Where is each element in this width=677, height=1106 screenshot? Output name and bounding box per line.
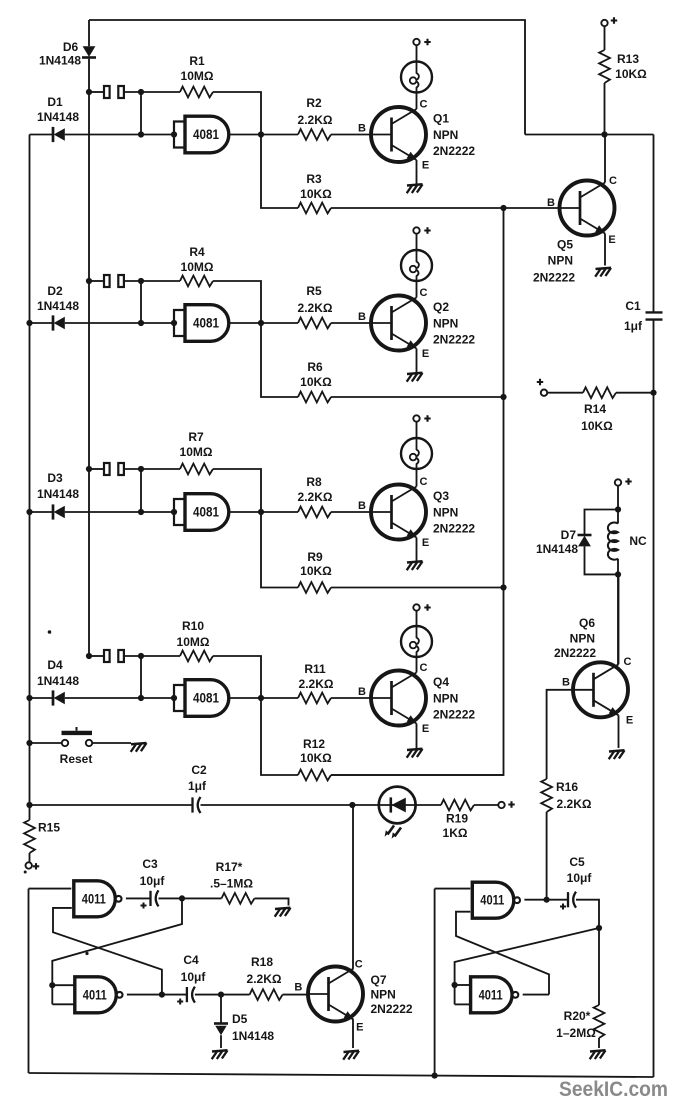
resistor R12 10K xyxy=(298,770,331,781)
resistor R2 2.2K xyxy=(298,129,331,140)
capacitor C3 xyxy=(151,890,159,906)
junction left bus / D4 xyxy=(26,695,32,701)
svg-text:R14: R14 xyxy=(584,402,606,416)
transistor Q1 xyxy=(371,107,426,162)
terminal lamp supply + xyxy=(413,39,419,45)
svg-text:E: E xyxy=(356,1022,363,1034)
resistor R4 10M xyxy=(180,276,213,287)
ground Q4 emitter xyxy=(407,749,423,758)
wire gate output to R11 xyxy=(230,697,299,699)
ground Q2 emitter xyxy=(407,373,423,382)
svg-text:C2: C2 xyxy=(191,763,207,777)
junction gate output xyxy=(258,320,264,326)
wire Q3 collector to lamp xyxy=(416,469,418,487)
terminal R19 supply + xyxy=(498,802,504,808)
svg-text:2.2KΩ: 2.2KΩ xyxy=(298,113,333,127)
wire lamp to supply terminal xyxy=(416,45,418,62)
svg-text:1N4148: 1N4148 xyxy=(37,299,79,313)
wire output node down to R12 xyxy=(261,698,298,775)
resistor R11 2.2K xyxy=(298,693,331,704)
wire gate output to R5 xyxy=(230,322,299,324)
wire lamp to supply terminal xyxy=(416,422,418,439)
svg-text:R1: R1 xyxy=(189,54,205,68)
svg-text:R2: R2 xyxy=(306,96,322,110)
transistor Q2 xyxy=(371,296,426,351)
svg-text:R12: R12 xyxy=(303,737,325,751)
wire bus to D1 xyxy=(30,134,54,136)
junction U6 input bar xyxy=(49,982,55,988)
wire output node down to R3 xyxy=(261,135,298,209)
svg-text:2.2KΩ: 2.2KΩ xyxy=(247,972,282,986)
svg-text:R4: R4 xyxy=(189,245,205,259)
wire right bus lower xyxy=(653,320,655,1077)
svg-text:Q4: Q4 xyxy=(433,675,449,689)
wire bus to pad xyxy=(89,468,104,470)
wire Q2 collector to lamp xyxy=(416,281,418,298)
svg-text:2.2KΩ: 2.2KΩ xyxy=(298,490,333,504)
wire R7 to gate output node xyxy=(213,469,261,512)
junction pad node xyxy=(138,466,144,472)
resistor R13 10K xyxy=(599,50,610,83)
svg-text:4081: 4081 xyxy=(193,505,219,520)
wire R5 to Q2 base xyxy=(331,322,371,324)
plus C5 polarity xyxy=(560,904,566,910)
svg-text:2N2222: 2N2222 xyxy=(533,271,575,285)
svg-text:4081: 4081 xyxy=(193,691,219,706)
terminal relay supply + xyxy=(615,479,621,485)
wire terminal to R14 xyxy=(547,392,583,394)
wire bus to pad xyxy=(89,91,104,93)
wire R20 to ground xyxy=(598,1038,600,1048)
wire gate output to R8 xyxy=(230,511,299,513)
svg-text:C: C xyxy=(420,476,428,488)
svg-text:B: B xyxy=(358,500,366,512)
svg-text:1μf: 1μf xyxy=(188,779,207,793)
svg-text:2.2KΩ: 2.2KΩ xyxy=(557,797,592,811)
resistor R5 2.2K xyxy=(298,318,331,329)
svg-text:10MΩ: 10MΩ xyxy=(181,260,214,274)
resistor R19 1K xyxy=(441,800,474,811)
svg-text:R9: R9 xyxy=(307,550,323,564)
wire bottom rail xyxy=(29,1073,654,1077)
junction input row xyxy=(138,509,144,515)
resistor R8 2.2K xyxy=(298,507,331,518)
svg-text:E: E xyxy=(422,537,429,549)
svg-text:10KΩ: 10KΩ xyxy=(300,564,332,578)
node stray mark 2 xyxy=(85,952,88,955)
svg-text:R3: R3 xyxy=(306,172,322,186)
svg-text:2N2222: 2N2222 xyxy=(433,333,475,347)
ground Q1 emitter xyxy=(407,184,423,193)
svg-text:Q2: Q2 xyxy=(433,300,449,314)
svg-text:2N2222: 2N2222 xyxy=(433,144,475,158)
svg-text:4011: 4011 xyxy=(479,987,503,1002)
diode D7 xyxy=(578,535,592,546)
wire cross-couple to U8 inputs xyxy=(455,928,599,1004)
capacitor C2 xyxy=(193,797,201,813)
svg-text:C3: C3 xyxy=(142,857,158,871)
diode D5 xyxy=(220,995,222,1023)
wire pad node down to gate input xyxy=(140,656,142,698)
wire R9 to middle bus xyxy=(331,587,504,589)
AND gate U3 4081 xyxy=(174,494,229,531)
svg-text:NPN: NPN xyxy=(433,317,458,331)
wire bus to switch xyxy=(30,742,62,744)
svg-text:1–2MΩ: 1–2MΩ xyxy=(556,1026,596,1040)
NAND gate U8 4011 xyxy=(471,977,519,1013)
resistor R1 10M xyxy=(180,87,213,98)
junction gate output xyxy=(258,131,264,137)
svg-text:B: B xyxy=(358,686,366,698)
terminal lamp supply + xyxy=(413,604,419,610)
junction pad node xyxy=(138,653,144,659)
svg-text:4081: 4081 xyxy=(193,316,219,331)
wire Q7 emitter xyxy=(352,1020,354,1049)
resistor R17 .5-1M xyxy=(222,893,255,904)
junction middle bus / R6 xyxy=(500,394,506,400)
plus C4 polarity xyxy=(177,999,183,1005)
transistor Q7 block xyxy=(294,805,412,1060)
ground reset xyxy=(131,743,147,752)
relay coil NC xyxy=(608,522,618,559)
junction relay bottom xyxy=(615,571,621,577)
ground Q6 emitter xyxy=(609,750,625,759)
wire to D7 xyxy=(585,510,619,536)
junction touch bus / pads 1 xyxy=(86,89,92,95)
resistor R10 10M xyxy=(180,651,213,662)
wire lamp to supply terminal xyxy=(416,611,418,627)
capacitor C5 xyxy=(568,892,576,908)
svg-text:B: B xyxy=(547,197,555,209)
svg-text:4011: 4011 xyxy=(480,893,504,908)
wire U6 output to C4 xyxy=(127,994,187,996)
wire Q3 emitter to ground xyxy=(416,538,418,563)
wire pad node down to gate input xyxy=(140,469,142,512)
svg-text:R18: R18 xyxy=(251,955,273,969)
resistor R3 10K xyxy=(298,203,331,214)
svg-text:NPN: NPN xyxy=(433,692,458,706)
wire U5 output to C3 xyxy=(126,897,151,899)
resistor R14 block xyxy=(537,379,657,433)
svg-text:B: B xyxy=(562,677,570,689)
svg-text:B: B xyxy=(358,123,366,135)
transistor Q5 xyxy=(560,181,615,236)
svg-text:10μf: 10μf xyxy=(140,874,166,888)
svg-text:D7: D7 xyxy=(561,528,577,542)
wire Q1 emitter to ground xyxy=(416,160,418,185)
wire Q6 emitter xyxy=(618,715,620,748)
svg-text:C: C xyxy=(624,656,632,668)
LED indicator xyxy=(379,787,416,839)
svg-text:4081: 4081 xyxy=(193,127,219,142)
node touch input 2 xyxy=(86,245,261,323)
junction LED row / Q7 collector xyxy=(349,802,355,808)
junction input row xyxy=(138,131,144,137)
switch Reset pushbutton xyxy=(62,731,93,735)
junction pad node xyxy=(138,89,144,95)
plus supply mark xyxy=(33,863,39,869)
svg-text:10μf: 10μf xyxy=(181,970,207,984)
wire R19 to terminal xyxy=(474,804,498,806)
svg-text:1N4148: 1N4148 xyxy=(37,110,79,124)
wire bus to C2 xyxy=(30,804,193,806)
capacitor C1 xyxy=(646,312,663,319)
wire R1 to gate output node xyxy=(213,92,261,135)
junction gate bracket xyxy=(171,320,177,326)
wire right ff bus xyxy=(434,889,436,1076)
svg-text:2.2KΩ: 2.2KΩ xyxy=(298,301,333,315)
AND gate U4 4081 xyxy=(174,680,229,717)
wire middle bus xyxy=(331,208,504,775)
wire D4 to gate input xyxy=(65,697,174,699)
wire bus to pad xyxy=(89,280,104,282)
svg-text:B: B xyxy=(294,982,302,994)
wire rail to right bus xyxy=(525,134,654,136)
junction C4 / D5 / R18 xyxy=(218,992,224,998)
NAND gate U6 4011 xyxy=(75,977,123,1013)
wire to U8 input a xyxy=(455,984,469,986)
junction input row xyxy=(138,320,144,326)
junction middle bus / R3 row xyxy=(500,205,506,211)
svg-text:Q5: Q5 xyxy=(557,238,573,252)
wire R16 down to gate output xyxy=(546,812,548,900)
lamp I1 xyxy=(401,62,432,93)
node touch input 1 xyxy=(86,54,261,135)
junction left bus / C2 row xyxy=(26,802,32,808)
junction gate bracket xyxy=(171,509,177,515)
wire to R1 xyxy=(141,91,180,93)
junction touch bus / pads 4 xyxy=(86,653,92,659)
svg-text:10KΩ: 10KΩ xyxy=(300,751,332,765)
svg-text:R19: R19 xyxy=(446,812,468,826)
svg-text:10MΩ: 10MΩ xyxy=(177,635,210,649)
svg-text:E: E xyxy=(422,723,429,735)
wire to U6 input a xyxy=(52,984,75,986)
svg-text:C: C xyxy=(609,175,617,187)
wire D5 to ground xyxy=(220,1035,222,1048)
plus supply mark xyxy=(424,39,430,45)
wire bus to D2 xyxy=(30,322,54,324)
wire R17 to ground xyxy=(255,898,289,905)
transistor Q7 xyxy=(308,967,363,1022)
ground R17 xyxy=(275,908,291,917)
svg-text:10KΩ: 10KΩ xyxy=(615,67,647,81)
svg-text:10MΩ: 10MΩ xyxy=(180,445,213,459)
svg-text:Q6: Q6 xyxy=(579,616,595,630)
AND gate U2 4081 xyxy=(174,305,229,342)
svg-text:D2: D2 xyxy=(47,284,63,298)
junction pad node xyxy=(138,278,144,284)
svg-text:NPN: NPN xyxy=(371,988,396,1002)
wire R8 to Q3 base xyxy=(331,511,371,513)
wire output node down to R9 xyxy=(261,512,298,588)
node touch input 3 xyxy=(86,430,261,512)
junction U6 output row xyxy=(159,992,165,998)
svg-text:10μf: 10μf xyxy=(567,871,593,885)
wire R15 to terminal xyxy=(29,853,31,862)
junction gate output xyxy=(258,695,264,701)
diode D6 xyxy=(82,46,96,57)
transistor Q5 block xyxy=(533,17,647,284)
plus supply mark xyxy=(625,478,631,484)
wire pad node down to gate input xyxy=(140,281,142,323)
wire pad to node xyxy=(124,655,141,657)
plus supply mark xyxy=(424,415,430,421)
touch pads TP3 xyxy=(104,463,110,475)
resistor R14 10K xyxy=(583,387,616,398)
svg-text:1μf: 1μf xyxy=(624,319,643,333)
wire lamp to supply terminal xyxy=(416,234,418,251)
svg-text:NPN: NPN xyxy=(433,506,458,520)
svg-text:R16: R16 xyxy=(556,780,578,794)
diode D3 xyxy=(53,504,65,519)
wire Q6 collector up xyxy=(618,574,620,664)
svg-text:D5: D5 xyxy=(232,1012,248,1026)
svg-text:D1: D1 xyxy=(47,95,63,109)
svg-text:R5: R5 xyxy=(306,284,322,298)
plus supply mark xyxy=(508,801,514,807)
wire terminal to relay node xyxy=(617,486,619,510)
wire C5 to R20 node xyxy=(576,900,599,928)
wire U8 output xyxy=(523,994,549,996)
svg-text:2N2222: 2N2222 xyxy=(554,646,596,660)
wire U7 output to C5 xyxy=(524,899,568,901)
node stray mark xyxy=(48,630,52,634)
wire to coil xyxy=(617,510,619,524)
svg-text:Q3: Q3 xyxy=(433,489,449,503)
svg-text:R13: R13 xyxy=(617,52,639,66)
wire C3 to R17 xyxy=(159,897,222,899)
node LED row xyxy=(26,763,514,840)
wire from top rail to D6 xyxy=(88,20,90,46)
svg-text:C1: C1 xyxy=(625,299,641,313)
svg-text:1N4148: 1N4148 xyxy=(37,674,79,688)
wire bus to D4 xyxy=(30,697,54,699)
wire to U8 input b xyxy=(455,1003,469,1005)
wire to gate U5 input xyxy=(29,888,72,890)
wire D7 to relay bottom xyxy=(585,546,619,574)
plus supply mark xyxy=(424,227,430,233)
wire right bus upper xyxy=(653,135,655,313)
wire Q1 collector to lamp xyxy=(416,93,418,110)
wire R3 row to Q5 base xyxy=(331,207,559,209)
svg-text:2N2222: 2N2222 xyxy=(433,522,475,536)
wire D2 to gate input xyxy=(65,322,174,324)
svg-text:10KΩ: 10KΩ xyxy=(300,375,332,389)
wire R13 to rail xyxy=(604,83,606,135)
svg-text:E: E xyxy=(422,160,429,172)
wire R14 to right bus xyxy=(616,392,654,394)
terminal lamp supply + xyxy=(413,227,419,233)
junction left bus / D2 xyxy=(26,320,32,326)
junction U7 output / R16 / C5 xyxy=(544,897,550,903)
wire coil to relay bottom xyxy=(617,559,619,575)
resistor R9 10K xyxy=(298,582,331,593)
svg-text:R8: R8 xyxy=(306,475,322,489)
resistor R15 xyxy=(24,820,35,853)
svg-text:4011: 4011 xyxy=(82,891,106,906)
lamp I4 xyxy=(401,626,432,657)
wire pad to node xyxy=(124,91,141,93)
wire Q7 collector to LED row xyxy=(352,805,354,969)
touch pads TP1 xyxy=(104,86,110,98)
svg-text:R7: R7 xyxy=(188,430,204,444)
svg-text:R17*: R17* xyxy=(216,860,243,874)
NAND gate U7 4011 xyxy=(472,882,520,918)
diode D1 xyxy=(53,127,65,142)
svg-text:NPN: NPN xyxy=(433,128,458,142)
NAND gate U5 4011 xyxy=(74,881,122,917)
svg-text:C: C xyxy=(420,287,428,299)
wire node to R20 xyxy=(598,928,600,1005)
junction right ff bus / bottom rail xyxy=(432,1073,438,1079)
node stray mark 3 xyxy=(24,871,27,874)
diode D4 xyxy=(53,690,65,705)
svg-text:C: C xyxy=(420,99,428,111)
svg-text:E: E xyxy=(608,234,615,246)
svg-text:C5: C5 xyxy=(569,855,585,869)
svg-text:D3: D3 xyxy=(47,471,63,485)
wire pad to node xyxy=(124,468,141,470)
svg-text:C: C xyxy=(420,662,428,674)
left flip-flop block xyxy=(29,857,309,1073)
svg-text:4011: 4011 xyxy=(83,987,107,1002)
svg-text:2N2222: 2N2222 xyxy=(371,1002,413,1016)
wire Q5 collector xyxy=(604,135,606,183)
junction gate bracket xyxy=(171,695,177,701)
svg-text:D4: D4 xyxy=(47,658,63,672)
svg-text:C: C xyxy=(355,959,363,971)
junction gate bracket xyxy=(171,131,177,137)
wire LED to R19 xyxy=(416,804,441,806)
resistor R15 block xyxy=(24,805,60,870)
wire bus to R15 xyxy=(29,805,31,820)
wire Q2 emitter to ground xyxy=(416,349,418,374)
svg-text:SeekIC.com: SeekIC.com xyxy=(559,1077,668,1101)
svg-text:B: B xyxy=(358,311,366,323)
wire Q4 emitter to ground xyxy=(416,724,418,750)
wire R10 to gate output node xyxy=(213,656,261,698)
junction relay top xyxy=(615,506,621,512)
plus C3 polarity xyxy=(141,903,147,909)
junction touch bus / pads 2 xyxy=(86,278,92,284)
wire left bus vertical xyxy=(29,135,31,806)
svg-text:R6: R6 xyxy=(307,360,323,374)
svg-text:D6: D6 xyxy=(63,40,79,54)
wire D3 to gate input xyxy=(65,511,174,513)
junction gate output xyxy=(258,509,264,515)
junction R13 / rail / Q5 collector xyxy=(601,131,607,137)
svg-text:R11: R11 xyxy=(304,662,326,676)
wire left bottom bus xyxy=(28,889,30,1073)
svg-text:.5–1MΩ: .5–1MΩ xyxy=(210,877,253,891)
diode D2 xyxy=(53,315,65,330)
wire Q4 collector to lamp xyxy=(416,657,418,673)
lamp I2 xyxy=(401,250,432,281)
svg-text:E: E xyxy=(626,715,633,727)
transistor Q6 xyxy=(573,662,628,717)
wire bus to pad xyxy=(89,655,104,657)
plus supply mark xyxy=(424,604,430,610)
wire to R7 xyxy=(141,468,180,470)
ground Q7 emitter xyxy=(343,1051,359,1060)
wire R6 to middle bus xyxy=(331,396,504,398)
wire to U7 input xyxy=(435,888,471,890)
wire cross-couple to U6 inputs xyxy=(52,898,182,1004)
ground R20 xyxy=(590,1050,606,1059)
lamp I3 xyxy=(401,438,432,469)
junction left bus / D3 xyxy=(26,509,32,515)
